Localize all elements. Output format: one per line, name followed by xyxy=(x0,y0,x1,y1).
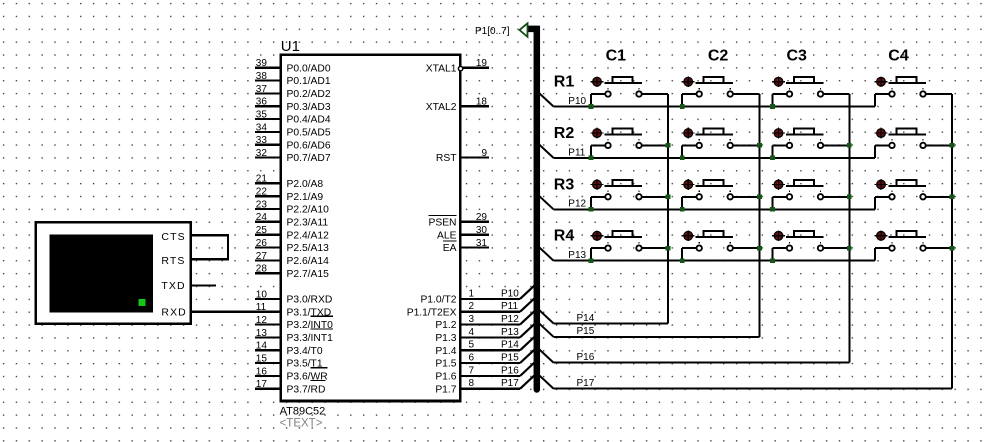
svg-text:21: 21 xyxy=(256,174,268,185)
svg-text:30: 30 xyxy=(476,225,488,236)
svg-text:5: 5 xyxy=(469,340,475,351)
svg-text:P3.3/INT1: P3.3/INT1 xyxy=(287,333,334,344)
svg-text:15: 15 xyxy=(256,354,268,365)
svg-text:P1.1/T2EX: P1.1/T2EX xyxy=(407,307,457,318)
svg-text:P0.0/AD0: P0.0/AD0 xyxy=(287,63,331,74)
svg-text:4: 4 xyxy=(469,327,475,338)
svg-text:P11: P11 xyxy=(568,147,585,158)
svg-text:P16: P16 xyxy=(577,352,595,363)
svg-text:P1.4: P1.4 xyxy=(435,346,456,357)
svg-text:36: 36 xyxy=(256,97,268,108)
svg-text:1: 1 xyxy=(469,288,475,299)
svg-text:RTS: RTS xyxy=(161,255,185,267)
svg-text:P0.1/AD1: P0.1/AD1 xyxy=(287,76,331,87)
svg-text:XTAL2: XTAL2 xyxy=(426,102,457,113)
svg-text:6: 6 xyxy=(469,353,475,364)
svg-text:29: 29 xyxy=(476,212,488,223)
svg-text:3: 3 xyxy=(469,314,475,325)
svg-text:R2: R2 xyxy=(554,125,575,142)
svg-text:P10: P10 xyxy=(501,288,519,299)
svg-text:TXD: TXD xyxy=(161,280,185,292)
svg-text:PSEN: PSEN xyxy=(428,217,456,228)
svg-text:13: 13 xyxy=(256,328,268,339)
svg-text:P13: P13 xyxy=(568,250,586,261)
svg-text:RST: RST xyxy=(436,153,457,164)
svg-text:P1.3: P1.3 xyxy=(435,333,456,344)
svg-text:31: 31 xyxy=(476,238,488,249)
svg-text:P2.7/A15: P2.7/A15 xyxy=(287,269,330,280)
svg-text:P14: P14 xyxy=(501,340,519,351)
svg-text:P12: P12 xyxy=(501,314,519,325)
svg-text:P1.6: P1.6 xyxy=(435,372,456,383)
svg-text:33: 33 xyxy=(256,135,268,146)
svg-text:C4: C4 xyxy=(888,48,909,65)
svg-text:P2.1/A9: P2.1/A9 xyxy=(287,192,324,203)
svg-text:14: 14 xyxy=(256,341,268,352)
svg-text:P0.4/AD4: P0.4/AD4 xyxy=(287,115,331,126)
svg-text:28: 28 xyxy=(256,264,268,275)
svg-text:22: 22 xyxy=(256,187,268,198)
svg-text:P1[0..7]: P1[0..7] xyxy=(475,26,510,37)
svg-text:32: 32 xyxy=(256,148,268,159)
svg-text:P17: P17 xyxy=(577,378,595,389)
svg-text:P3.7/RD: P3.7/RD xyxy=(287,384,326,395)
svg-text:P2.5/A13: P2.5/A13 xyxy=(287,243,330,254)
svg-text:27: 27 xyxy=(256,251,268,262)
svg-text:34: 34 xyxy=(256,122,268,133)
svg-text:CTS: CTS xyxy=(161,231,185,243)
svg-text:10: 10 xyxy=(256,289,268,300)
svg-text:P2.4/A12: P2.4/A12 xyxy=(287,230,330,241)
svg-text:C1: C1 xyxy=(606,48,627,65)
svg-text:18: 18 xyxy=(476,97,488,108)
svg-text:P2.2/A10: P2.2/A10 xyxy=(287,205,330,216)
svg-text:P1.2: P1.2 xyxy=(435,320,456,331)
svg-text:P1.5: P1.5 xyxy=(435,359,456,370)
svg-text:23: 23 xyxy=(256,199,268,210)
svg-text:P12: P12 xyxy=(568,199,586,210)
svg-text:25: 25 xyxy=(256,225,268,236)
svg-text:P3.4/T0: P3.4/T0 xyxy=(287,346,323,357)
svg-text:AT89C52: AT89C52 xyxy=(280,405,326,417)
svg-text:12: 12 xyxy=(256,315,268,326)
svg-text:XTAL1: XTAL1 xyxy=(426,63,457,74)
svg-text:8: 8 xyxy=(469,378,475,389)
svg-text:P16: P16 xyxy=(501,365,519,376)
svg-text:P15: P15 xyxy=(501,353,519,364)
svg-text:38: 38 xyxy=(256,71,268,82)
svg-text:2: 2 xyxy=(469,301,475,312)
svg-text:P0.6/AD6: P0.6/AD6 xyxy=(287,140,331,151)
svg-text:17: 17 xyxy=(256,379,268,390)
svg-text:26: 26 xyxy=(256,238,268,249)
svg-text:P14: P14 xyxy=(577,313,595,324)
svg-text:16: 16 xyxy=(256,366,268,377)
svg-text:C2: C2 xyxy=(708,48,729,65)
svg-text:P0.7/AD7: P0.7/AD7 xyxy=(287,153,331,164)
svg-text:P13: P13 xyxy=(501,327,519,338)
svg-text:P1.0/T2: P1.0/T2 xyxy=(420,295,456,306)
svg-text:P15: P15 xyxy=(577,326,595,337)
svg-text:35: 35 xyxy=(256,110,268,121)
svg-text:37: 37 xyxy=(256,84,268,95)
svg-text:P0.5/AD5: P0.5/AD5 xyxy=(287,128,331,139)
svg-text:<TEXT>: <TEXT> xyxy=(280,418,323,430)
svg-text:EA: EA xyxy=(443,243,457,254)
svg-text:R3: R3 xyxy=(554,176,575,193)
svg-text:U1: U1 xyxy=(281,38,300,55)
svg-text:RXD: RXD xyxy=(161,306,186,318)
svg-text:P10: P10 xyxy=(568,96,586,107)
svg-text:P2.3/A11: P2.3/A11 xyxy=(287,217,329,228)
svg-text:R1: R1 xyxy=(554,74,575,91)
svg-text:P11: P11 xyxy=(501,301,518,312)
svg-text:P0.2/AD2: P0.2/AD2 xyxy=(287,89,331,100)
svg-text:9: 9 xyxy=(481,148,487,159)
svg-text:24: 24 xyxy=(256,212,268,223)
svg-text:19: 19 xyxy=(476,58,488,69)
svg-text:R4: R4 xyxy=(554,228,575,245)
svg-text:P17: P17 xyxy=(501,378,519,389)
svg-text:39: 39 xyxy=(256,58,268,69)
svg-text:C3: C3 xyxy=(786,48,807,65)
svg-text:ALE: ALE xyxy=(437,230,457,241)
svg-text:P0.3/AD3: P0.3/AD3 xyxy=(287,102,331,113)
svg-text:P3.0/RXD: P3.0/RXD xyxy=(287,295,333,306)
svg-text:7: 7 xyxy=(469,365,475,376)
svg-text:P2.0/A8: P2.0/A8 xyxy=(287,179,324,190)
svg-text:P1.7: P1.7 xyxy=(435,384,456,395)
svg-text:P2.6/A14: P2.6/A14 xyxy=(287,256,330,267)
